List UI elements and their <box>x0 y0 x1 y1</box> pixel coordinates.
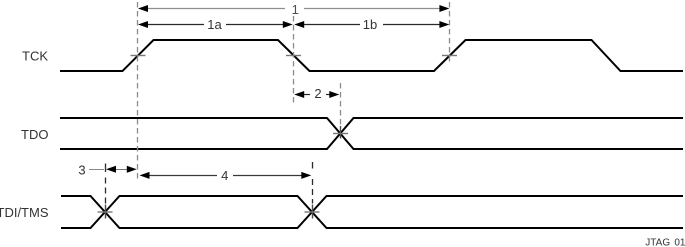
dimension arrow 1 <box>138 2 449 17</box>
node dashed line at TDO transition <box>340 83 342 125</box>
dimension arrow 3 <box>78 162 136 177</box>
wire TCK waveform <box>60 40 683 71</box>
node dashed line at TDI/TMS transition 1 <box>105 164 107 173</box>
wire TDO bus line upper <box>60 118 683 149</box>
node crossing tick TDI/TMS 2 <box>305 211 320 213</box>
svg-text:1: 1 <box>292 2 299 17</box>
node crossing tick TCK edge 1 <box>131 55 146 57</box>
wire TDI/TMS bus line upper <box>61 196 683 228</box>
dimension arrow 2 <box>294 86 339 101</box>
svg-text:2: 2 <box>314 86 321 101</box>
svg-text:JTAG 01: JTAG 01 <box>645 238 685 247</box>
svg-text:TDI/TMS: TDI/TMS <box>0 205 49 220</box>
node dashed line at TCK rising edge 2 <box>449 2 451 64</box>
node crossing tick TCK edge 3 <box>442 55 457 57</box>
node dashed line at TDI/TMS transition 2 <box>312 162 314 169</box>
dimension arrow 1b <box>294 17 449 32</box>
svg-text:1a: 1a <box>207 17 222 32</box>
wire TDO bus line lower <box>60 118 683 149</box>
svg-text:3: 3 <box>78 162 85 177</box>
svg-text:1b: 1b <box>363 17 377 32</box>
node crossing tick TDO <box>333 133 348 135</box>
svg-text:TCK: TCK <box>22 49 48 64</box>
wire TDI/TMS bus line lower <box>61 196 683 228</box>
node crossing tick TDI/TMS 1 <box>98 211 113 213</box>
node dashed line at TCK falling edge <box>293 16 295 105</box>
svg-text:TDO: TDO <box>21 127 48 142</box>
svg-text:4: 4 <box>221 168 228 183</box>
dimension arrow 4 <box>140 168 312 183</box>
node crossing tick TCK edge 2 <box>286 55 301 57</box>
node dashed line at TCK rising edge 1 <box>137 2 139 181</box>
dimension arrow 1a <box>138 17 293 32</box>
